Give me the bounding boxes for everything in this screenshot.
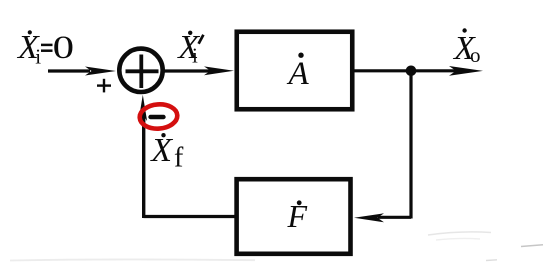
svg-text:i: i (35, 45, 41, 69)
wire: input to summing junction (48, 67, 116, 76)
summing junction (119, 49, 162, 92)
output signal label Xo (452, 28, 481, 67)
wire: feedback into block F (arrow) (354, 213, 411, 222)
wire: summing junction to block A (164, 66, 234, 75)
faint scan smudge lower left (10, 259, 255, 260)
wire: block A to output (354, 66, 483, 76)
plus sign at summing input (97, 79, 111, 93)
svg-text:0: 0 (53, 30, 74, 66)
wire: node down to feedback path (409, 71, 412, 219)
feedback signal label Xf (149, 132, 184, 174)
minus sign (feedback polarity) (151, 115, 164, 119)
label A (forward gain) (287, 53, 310, 93)
svg-text:i: i (192, 43, 198, 67)
label Xi' (summing output) (176, 29, 203, 67)
node: output branch point (406, 66, 417, 77)
wire: block F output leftward (144, 215, 236, 218)
label F (feedback gain) (287, 198, 308, 234)
svg-text:o: o (470, 43, 481, 67)
faint scan smudge right of F block (428, 232, 491, 240)
faint scan smudge bottom center (486, 259, 497, 262)
block F (237, 179, 351, 254)
svg-text:A: A (287, 56, 310, 92)
block A (237, 32, 353, 110)
faint scan dash lower right corner (521, 245, 543, 247)
svg-text:X: X (149, 132, 173, 169)
svg-text:f: f (174, 143, 184, 174)
red emphasis ellipse around minus sign (139, 103, 178, 130)
wire: feedback up into summing junction (arrow) (139, 95, 148, 218)
input signal label Xi=0 (16, 29, 74, 69)
